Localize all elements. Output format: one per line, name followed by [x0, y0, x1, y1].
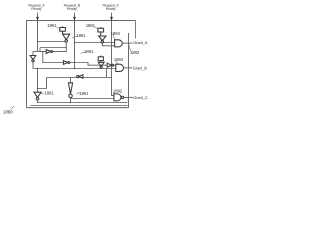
pull-up R2b — [98, 56, 103, 61]
wire Q2 output to gate U1 lower input — [102, 43, 114, 46]
wire Q3b output drop — [70, 98, 72, 103]
label Grant_C — [133, 95, 148, 100]
label 1892 (gate U3) — [113, 88, 123, 93]
wire Q1b output down — [32, 62, 34, 69]
pull-up R1 — [60, 26, 66, 31]
svg-text:Priority: Priority — [31, 7, 41, 11]
wire bus W105 — [31, 105, 128, 107]
svg-text:1891: 1891 — [44, 90, 54, 95]
leader to Q3b — [77, 93, 81, 94]
wire Grant_A output — [122, 42, 132, 44]
and-gate U2 — [116, 64, 124, 71]
wire R1 to Q1 — [62, 31, 64, 34]
label 1893 (gate U2) — [114, 57, 124, 62]
leader 1892 to border — [129, 45, 131, 51]
label 1891 (pull-up R1) — [47, 23, 57, 28]
svg-text:1891: 1891 — [76, 33, 86, 38]
wire bus W3 — [47, 77, 112, 79]
wire drop to Q1b — [32, 52, 34, 56]
wire input C vertical down to gate U3 top input — [112, 13, 114, 96]
svg-text:Grant_A: Grant_A — [133, 40, 148, 45]
wire Grant_B output — [124, 67, 133, 69]
wire bus W102 — [38, 102, 128, 104]
leader 1890 to border — [11, 106, 15, 109]
label 1892 (border crossing) — [130, 50, 140, 55]
wire U2c output to gate U2 — [114, 64, 116, 66]
wire Q1 output down — [65, 42, 67, 52]
svg-text:1891: 1891 — [79, 91, 89, 96]
wire Grant_C output — [124, 96, 133, 98]
leader to U1 — [113, 35, 115, 39]
wire U1a output — [53, 51, 66, 53]
label 1891 (inverter U1a) — [84, 49, 94, 54]
inverter U1a (right) — [46, 50, 53, 54]
leader to R1 — [57, 27, 61, 29]
wire input A vertical — [37, 13, 39, 52]
label Request_A Priority — [28, 4, 45, 12]
wire Q3b to gate U3 lower input — [71, 98, 114, 100]
svg-text:1893: 1893 — [111, 31, 121, 36]
leader to R2 — [94, 27, 98, 29]
and-gate U1 — [115, 40, 123, 47]
label Request_B Priority — [64, 4, 81, 12]
leader to Q3a — [41, 92, 44, 95]
wire W3 left turn down — [38, 78, 47, 89]
leader to Q1 — [72, 36, 77, 38]
svg-text:Grant_C: Grant_C — [133, 95, 148, 100]
inverter U1c (right) — [63, 61, 69, 65]
nand-gate U3 — [114, 94, 124, 101]
wire R2b to Q2b — [100, 61, 102, 63]
inverter Q2b (down) — [98, 62, 104, 68]
inverter U3L (left) — [77, 75, 83, 79]
svg-text:1891: 1891 — [86, 23, 96, 28]
svg-text:1892: 1892 — [113, 88, 123, 93]
junction dots — [37, 41, 103, 103]
wire y47.5 — [40, 47, 66, 49]
label Grant_B — [133, 65, 148, 70]
arrowhead input B — [73, 17, 76, 21]
inverter Q2 (down) — [99, 36, 106, 43]
wire drop x40.1 — [39, 48, 41, 52]
label Grant_A — [133, 40, 148, 45]
wire node B horizontal — [75, 42, 115, 44]
border 1890 block outline (jogged right edge) — [27, 21, 136, 108]
label 1891 (inverter Q3b) — [79, 91, 89, 96]
pull-up R2 — [98, 27, 104, 32]
wire Q3a output to bus — [37, 100, 39, 102]
svg-text:1893: 1893 — [114, 57, 124, 62]
wire R2 to Q2 — [100, 32, 102, 36]
inverter Q3b (down, center) — [68, 83, 72, 98]
wire bus W2 — [33, 68, 116, 70]
wire U1c output to U2c — [70, 63, 107, 66]
svg-text:Priority: Priority — [67, 7, 77, 11]
border bottom emphasis — [27, 107, 129, 109]
label 1891 (inverter Q3a) — [44, 90, 54, 95]
svg-text:Priority: Priority — [106, 7, 116, 11]
label 1891 (inverter Q1) — [76, 33, 86, 38]
label 1893 (gate U1) — [111, 31, 121, 36]
junction dot — [70, 102, 71, 103]
wire node y51.7 — [33, 51, 46, 53]
arrowhead input A — [36, 17, 39, 21]
svg-text:1891: 1891 — [84, 49, 94, 54]
leader to U2 — [115, 61, 118, 64]
svg-text:1890: 1890 — [3, 109, 13, 114]
wire input B vertical — [74, 13, 76, 69]
arrowhead input C — [110, 17, 113, 21]
inverter U2c (right) — [107, 63, 113, 67]
wire W2 to W3 link — [106, 69, 108, 78]
leader to U3 — [113, 92, 116, 94]
inverter Q1 (down) — [63, 34, 70, 42]
wire center driver input — [70, 78, 72, 83]
svg-text:1892: 1892 — [130, 50, 140, 55]
wire drop x42.8 to row2 — [43, 52, 64, 63]
wire input A column down — [37, 69, 39, 93]
inverter Q1b (down) — [30, 56, 36, 62]
border upper-right segment — [135, 21, 137, 39]
leader from 1891 to wire — [81, 52, 85, 53]
label 1891 (pull-up R2) — [86, 23, 96, 28]
inverter Q3a (down, bottom-left) — [34, 92, 41, 100]
label 1890 (block) — [3, 109, 13, 114]
wire node A horizontal — [38, 41, 66, 43]
svg-text:1891: 1891 — [47, 23, 57, 28]
svg-text:Grant_B: Grant_B — [133, 65, 148, 70]
label Request_C Priority — [102, 4, 119, 12]
